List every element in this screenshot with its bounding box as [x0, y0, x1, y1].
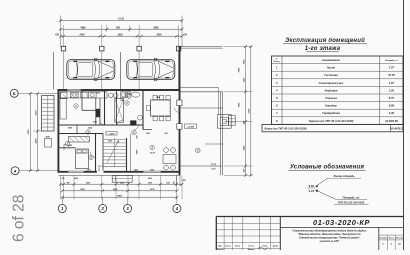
door bedroom	[90, 152, 95, 157]
svg-text:А: А	[13, 168, 17, 173]
svg-text:01-03-2020-КР: 01-03-2020-КР	[313, 218, 370, 227]
svg-text:Лист: Лист	[387, 238, 394, 240]
svg-text:Листов: Листов	[394, 238, 404, 240]
svg-text:Наименование: Наименование	[322, 59, 340, 62]
sheet frame right border	[403, 0, 405, 250]
wall house bottom	[58, 171, 181, 173]
door closet	[64, 144, 70, 148]
terrace south line	[181, 165, 223, 167]
entry opening gap	[97, 171, 104, 173]
svg-text:Кладовая: Кладовая	[325, 88, 338, 92]
svg-text:1-го этажа: 1-го этажа	[305, 46, 341, 52]
staircase internal with treads	[103, 139, 127, 141]
bed bottom-left	[76, 149, 89, 169]
svg-text:Коридор: Коридор	[325, 104, 337, 108]
fence top double line	[181, 45, 223, 47]
svg-text:4960: 4960	[79, 26, 86, 29]
svg-text:410: 410	[173, 182, 176, 186]
svg-text:3430: 3430	[35, 138, 38, 144]
svg-text:Помещ.: Помещ.	[274, 61, 281, 63]
window bottom wall bedroom	[68, 171, 84, 173]
wall interior bath right vertical	[142, 91, 144, 130]
car 2 top view	[127, 60, 175, 80]
entry porch steps	[112, 175, 132, 182]
svg-text:+2.368: +2.368	[187, 126, 195, 128]
svg-text:9.56: 9.56	[389, 104, 395, 108]
svg-text:Изм.: Изм.	[218, 245, 223, 247]
outdoor steps right	[228, 116, 235, 126]
svg-text:Санитарный узел: Санитарный узел	[319, 81, 344, 85]
carport slab left edge	[52, 52, 54, 90]
kitchen counter left	[60, 98, 66, 119]
svg-text:ТКП 45-3.02-324-2018: ТКП 45-3.02-324-2018	[338, 200, 365, 204]
table totals row	[262, 124, 403, 131]
car 1 top view	[67, 60, 115, 80]
svg-text:3.20: 3.20	[389, 88, 395, 92]
wall stair right vertical	[130, 134, 132, 172]
svg-text:2.67: 2.67	[388, 81, 395, 85]
svg-text:1001: 1001	[93, 122, 97, 124]
svg-text:4770: 4770	[149, 188, 155, 191]
svg-text:2400: 2400	[147, 177, 152, 180]
svg-text:Всего (по ТКП 45-3.02-324-20: Всего (по ТКП 45-3.02-324-2018)	[265, 126, 307, 130]
terrace edge line upper	[181, 87, 219, 89]
svg-text:33.28/9.98: 33.28/9.98	[385, 119, 398, 123]
bath shower cabin	[115, 98, 124, 122]
wardrobe hatched	[69, 136, 90, 142]
window top wall kitchen	[67, 89, 81, 91]
svg-text:Экспликация помещений: Экспликация помещений	[285, 37, 365, 44]
svg-text:Терраса (по ТКП 45-3.02-324-2: Терраса (по ТКП 45-3.02-324-2018)	[309, 119, 354, 123]
svg-text:Площадь, по: Площадь, по	[343, 195, 360, 199]
pilaster right wall lower	[177, 124, 182, 130]
explication table grid and rows	[272, 56, 404, 124]
svg-text:103.44/78.21: 103.44/78.21	[390, 127, 405, 130]
door kitchen	[100, 120, 105, 125]
wall interior bath left vertical	[116, 91, 118, 125]
svg-text:Условные обозначения: Условные обозначения	[290, 163, 365, 170]
svg-text:7530: 7530	[28, 129, 30, 135]
wall interior bedroom horizontal	[59, 133, 104, 135]
wall interior bedroom right vertical	[95, 134, 97, 172]
svg-text:5960: 5960	[117, 195, 123, 197]
svg-text:14.10: 14.10	[118, 18, 124, 21]
door hall	[134, 125, 138, 129]
kitchen worktop extra	[81, 92, 88, 98]
porch corner lines	[176, 175, 178, 186]
svg-text:3.43: 3.43	[308, 189, 314, 193]
wall living partial	[143, 129, 152, 131]
svg-text:6 of 28: 6 of 28	[11, 195, 28, 242]
svg-text:Подп.: Подп.	[263, 244, 269, 247]
kitchen stove	[71, 92, 79, 98]
axis circle B left	[10, 89, 18, 97]
axis circle A left	[11, 167, 19, 175]
room 8 terrace number circle	[196, 148, 201, 153]
wall pantry divider vertical	[76, 125, 78, 134]
wall house right	[179, 47, 181, 176]
bath toilet	[127, 93, 131, 98]
carport columns K1-K4	[61, 46, 65, 51]
door entry	[99, 166, 103, 168]
svg-text:участок № 230”: участок № 230”	[319, 240, 341, 243]
terrace north line	[181, 107, 223, 109]
right dimension chain	[224, 46, 253, 48]
stair elevation label	[106, 131, 117, 135]
sitting group	[164, 148, 169, 153]
svg-text:1960: 1960	[74, 178, 78, 180]
svg-text:Лист: Лист	[234, 245, 240, 247]
dimension row bottom detail	[61, 183, 183, 185]
svg-text:Б: Б	[13, 91, 16, 96]
axis circles 1-4 bottom	[61, 197, 63, 204]
dimension row bottom mid	[62, 190, 177, 192]
door bath	[117, 120, 122, 125]
extension lines top dims	[60, 16, 62, 48]
svg-text:7.07: 7.07	[389, 66, 395, 70]
wall interior kitchen vertical	[104, 91, 106, 125]
wall stair left vertical	[102, 134, 104, 172]
svg-text:1030: 1030	[117, 34, 123, 36]
svg-text:33.76: 33.76	[388, 73, 395, 77]
legend arrow lower	[317, 190, 336, 199]
kitchen counter top	[60, 92, 107, 98]
pilaster right wall upper	[177, 100, 182, 106]
svg-text:№: №	[276, 58, 278, 61]
left dimension chain inner	[37, 93, 39, 170]
left dimension chain outer	[29, 93, 31, 170]
bath washer	[120, 92, 126, 98]
wall house left	[57, 89, 59, 172]
svg-text:Спальня: Спальня	[325, 96, 337, 100]
plumbing shaft dark	[96, 109, 100, 117]
svg-text:5060: 5060	[153, 27, 159, 29]
dimension line top row2	[61, 28, 183, 30]
wall closet divider horizontal	[59, 147, 76, 149]
dimension row bottom overall	[62, 196, 177, 198]
room number circles	[74, 104, 78, 108]
kitchen fridge	[61, 92, 67, 98]
terrace top line	[181, 91, 223, 93]
external stair left side	[42, 96, 54, 131]
wall kitchen horizontal y110	[82, 109, 96, 111]
svg-text:9.62: 9.62	[308, 184, 314, 188]
wall house top	[58, 89, 181, 91]
svg-text:№ док.: № док.	[248, 244, 255, 247]
kitchen sink	[89, 92, 97, 98]
kitchen double sink circles	[109, 93, 114, 98]
carport bay divider	[120, 52, 122, 90]
svg-text:4.48: 4.48	[388, 111, 395, 115]
window bottom wall living	[143, 171, 161, 173]
extension lines bottom	[60, 175, 62, 199]
svg-text:410: 410	[182, 33, 188, 36]
svg-text:2430: 2430	[155, 33, 162, 36]
landing pad left	[45, 139, 52, 147]
svg-text:2460: 2460	[112, 188, 118, 191]
svg-text:Кухня: Кухня	[327, 66, 335, 70]
door terrace	[174, 108, 179, 113]
bath boiler circle	[138, 115, 143, 120]
svg-text:410: 410	[54, 33, 60, 36]
svg-text:Площадь, м²: Площадь, м²	[385, 59, 398, 62]
bath oval sink	[132, 92, 140, 97]
svg-text:Гостиная: Гостиная	[324, 73, 338, 77]
terrace right edge double	[219, 92, 221, 176]
svg-text:Жилая площадь: Жилая площадь	[332, 174, 355, 178]
legend arrow upper	[317, 178, 328, 186]
svg-text:-1.400: -1.400	[109, 132, 116, 135]
svg-text:2331: 2331	[145, 133, 150, 135]
dimension line top row3	[61, 35, 183, 37]
title block grid	[216, 216, 403, 218]
svg-text:Кол.уч.: Кол.уч.	[225, 245, 231, 247]
wall interior corridor horizontal	[59, 124, 144, 126]
carport column axis lines	[63, 51, 65, 89]
svg-text:Дата: Дата	[272, 245, 278, 247]
bath boiler dark	[130, 120, 136, 125]
svg-text:8.70: 8.70	[389, 96, 395, 100]
svg-text:Гардеробная: Гардеробная	[322, 111, 340, 115]
svg-text:4100: 4100	[35, 110, 38, 117]
svg-text:Стадия: Стадия	[379, 237, 388, 240]
svg-text:33.76: 33.76	[150, 153, 156, 155]
terrace mid line	[205, 143, 223, 145]
elevation mark +2.368 terrace	[184, 124, 196, 128]
dimension line overall top 14100	[61, 20, 183, 22]
dining table with chairs	[151, 100, 171, 116]
svg-text:120: 120	[61, 178, 64, 180]
wall kitchen vertical x82	[81, 91, 83, 110]
porch slab edge bottom	[59, 174, 181, 176]
fireplace concentric squares	[218, 115, 232, 129]
bath cabinet	[126, 92, 130, 97]
svg-text:2430: 2430	[78, 33, 85, 36]
